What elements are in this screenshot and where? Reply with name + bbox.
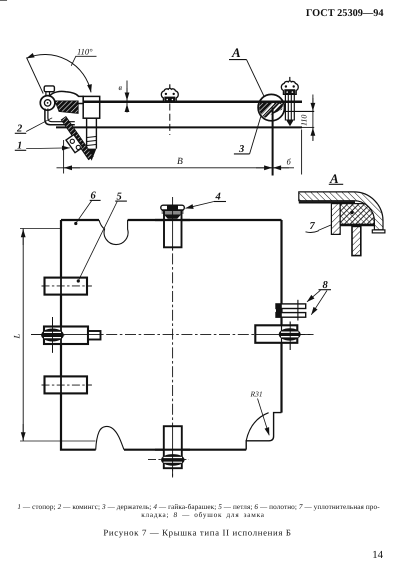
- svg-text:5: 5: [117, 191, 122, 202]
- svg-text:кладка; 8 — обушок для замка: кладка; 8 — обушок для замка: [141, 511, 265, 519]
- svg-text:А: А: [329, 171, 339, 186]
- svg-text:3: 3: [238, 144, 244, 155]
- svg-text:ГОСТ 25309—94: ГОСТ 25309—94: [306, 8, 384, 19]
- svg-text:6: 6: [91, 191, 97, 202]
- svg-text:В: В: [177, 157, 183, 167]
- svg-text:4: 4: [215, 192, 221, 203]
- svg-text:1: 1: [17, 141, 22, 152]
- svg-text:7: 7: [310, 221, 316, 232]
- svg-text:R31: R31: [250, 390, 263, 399]
- svg-text:в: в: [119, 83, 123, 92]
- svg-text:8: 8: [323, 280, 329, 291]
- svg-text:Рисунок 7 — Крышка типа II исп: Рисунок 7 — Крышка типа II исполнения Б: [103, 528, 291, 538]
- svg-text:L: L: [12, 334, 22, 340]
- svg-text:1 — стопор; 2 — комингс; 3 — д: 1 — стопор; 2 — комингс; 3 — держатель; …: [17, 503, 380, 511]
- svg-text:2: 2: [16, 124, 23, 135]
- svg-text:А: А: [231, 45, 241, 60]
- svg-text:110: 110: [300, 115, 309, 126]
- svg-text:14: 14: [372, 549, 383, 561]
- svg-text:110°: 110°: [77, 47, 93, 57]
- svg-text:б: б: [287, 157, 292, 167]
